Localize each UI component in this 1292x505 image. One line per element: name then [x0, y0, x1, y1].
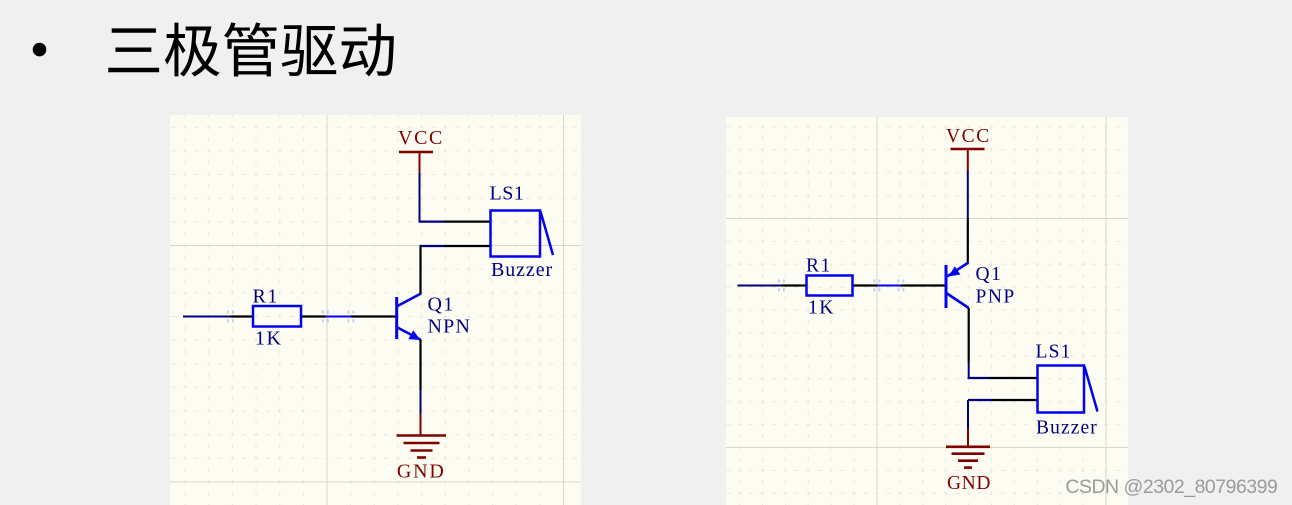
svg-text:GND: GND	[397, 461, 446, 483]
svg-text:PNP: PNP	[976, 287, 1016, 308]
svg-text:Buzzer: Buzzer	[1036, 418, 1098, 439]
svg-text:CSDN @2302_80796399: CSDN @2302_80796399	[1065, 476, 1277, 498]
svg-text:Q1: Q1	[976, 264, 1003, 285]
svg-text:NPN: NPN	[428, 316, 472, 338]
svg-text:Buzzer: Buzzer	[491, 259, 553, 281]
svg-text:LS1: LS1	[1036, 342, 1072, 363]
svg-text:VCC: VCC	[946, 126, 991, 147]
svg-text:1K: 1K	[808, 298, 835, 319]
svg-text:R1: R1	[253, 286, 279, 308]
svg-text:1K: 1K	[255, 328, 282, 350]
svg-text:Q1: Q1	[428, 294, 455, 316]
svg-text:GND: GND	[947, 473, 991, 494]
svg-text:R1: R1	[806, 256, 832, 277]
svg-text:VCC: VCC	[398, 127, 444, 149]
svg-text:LS1: LS1	[490, 183, 525, 205]
